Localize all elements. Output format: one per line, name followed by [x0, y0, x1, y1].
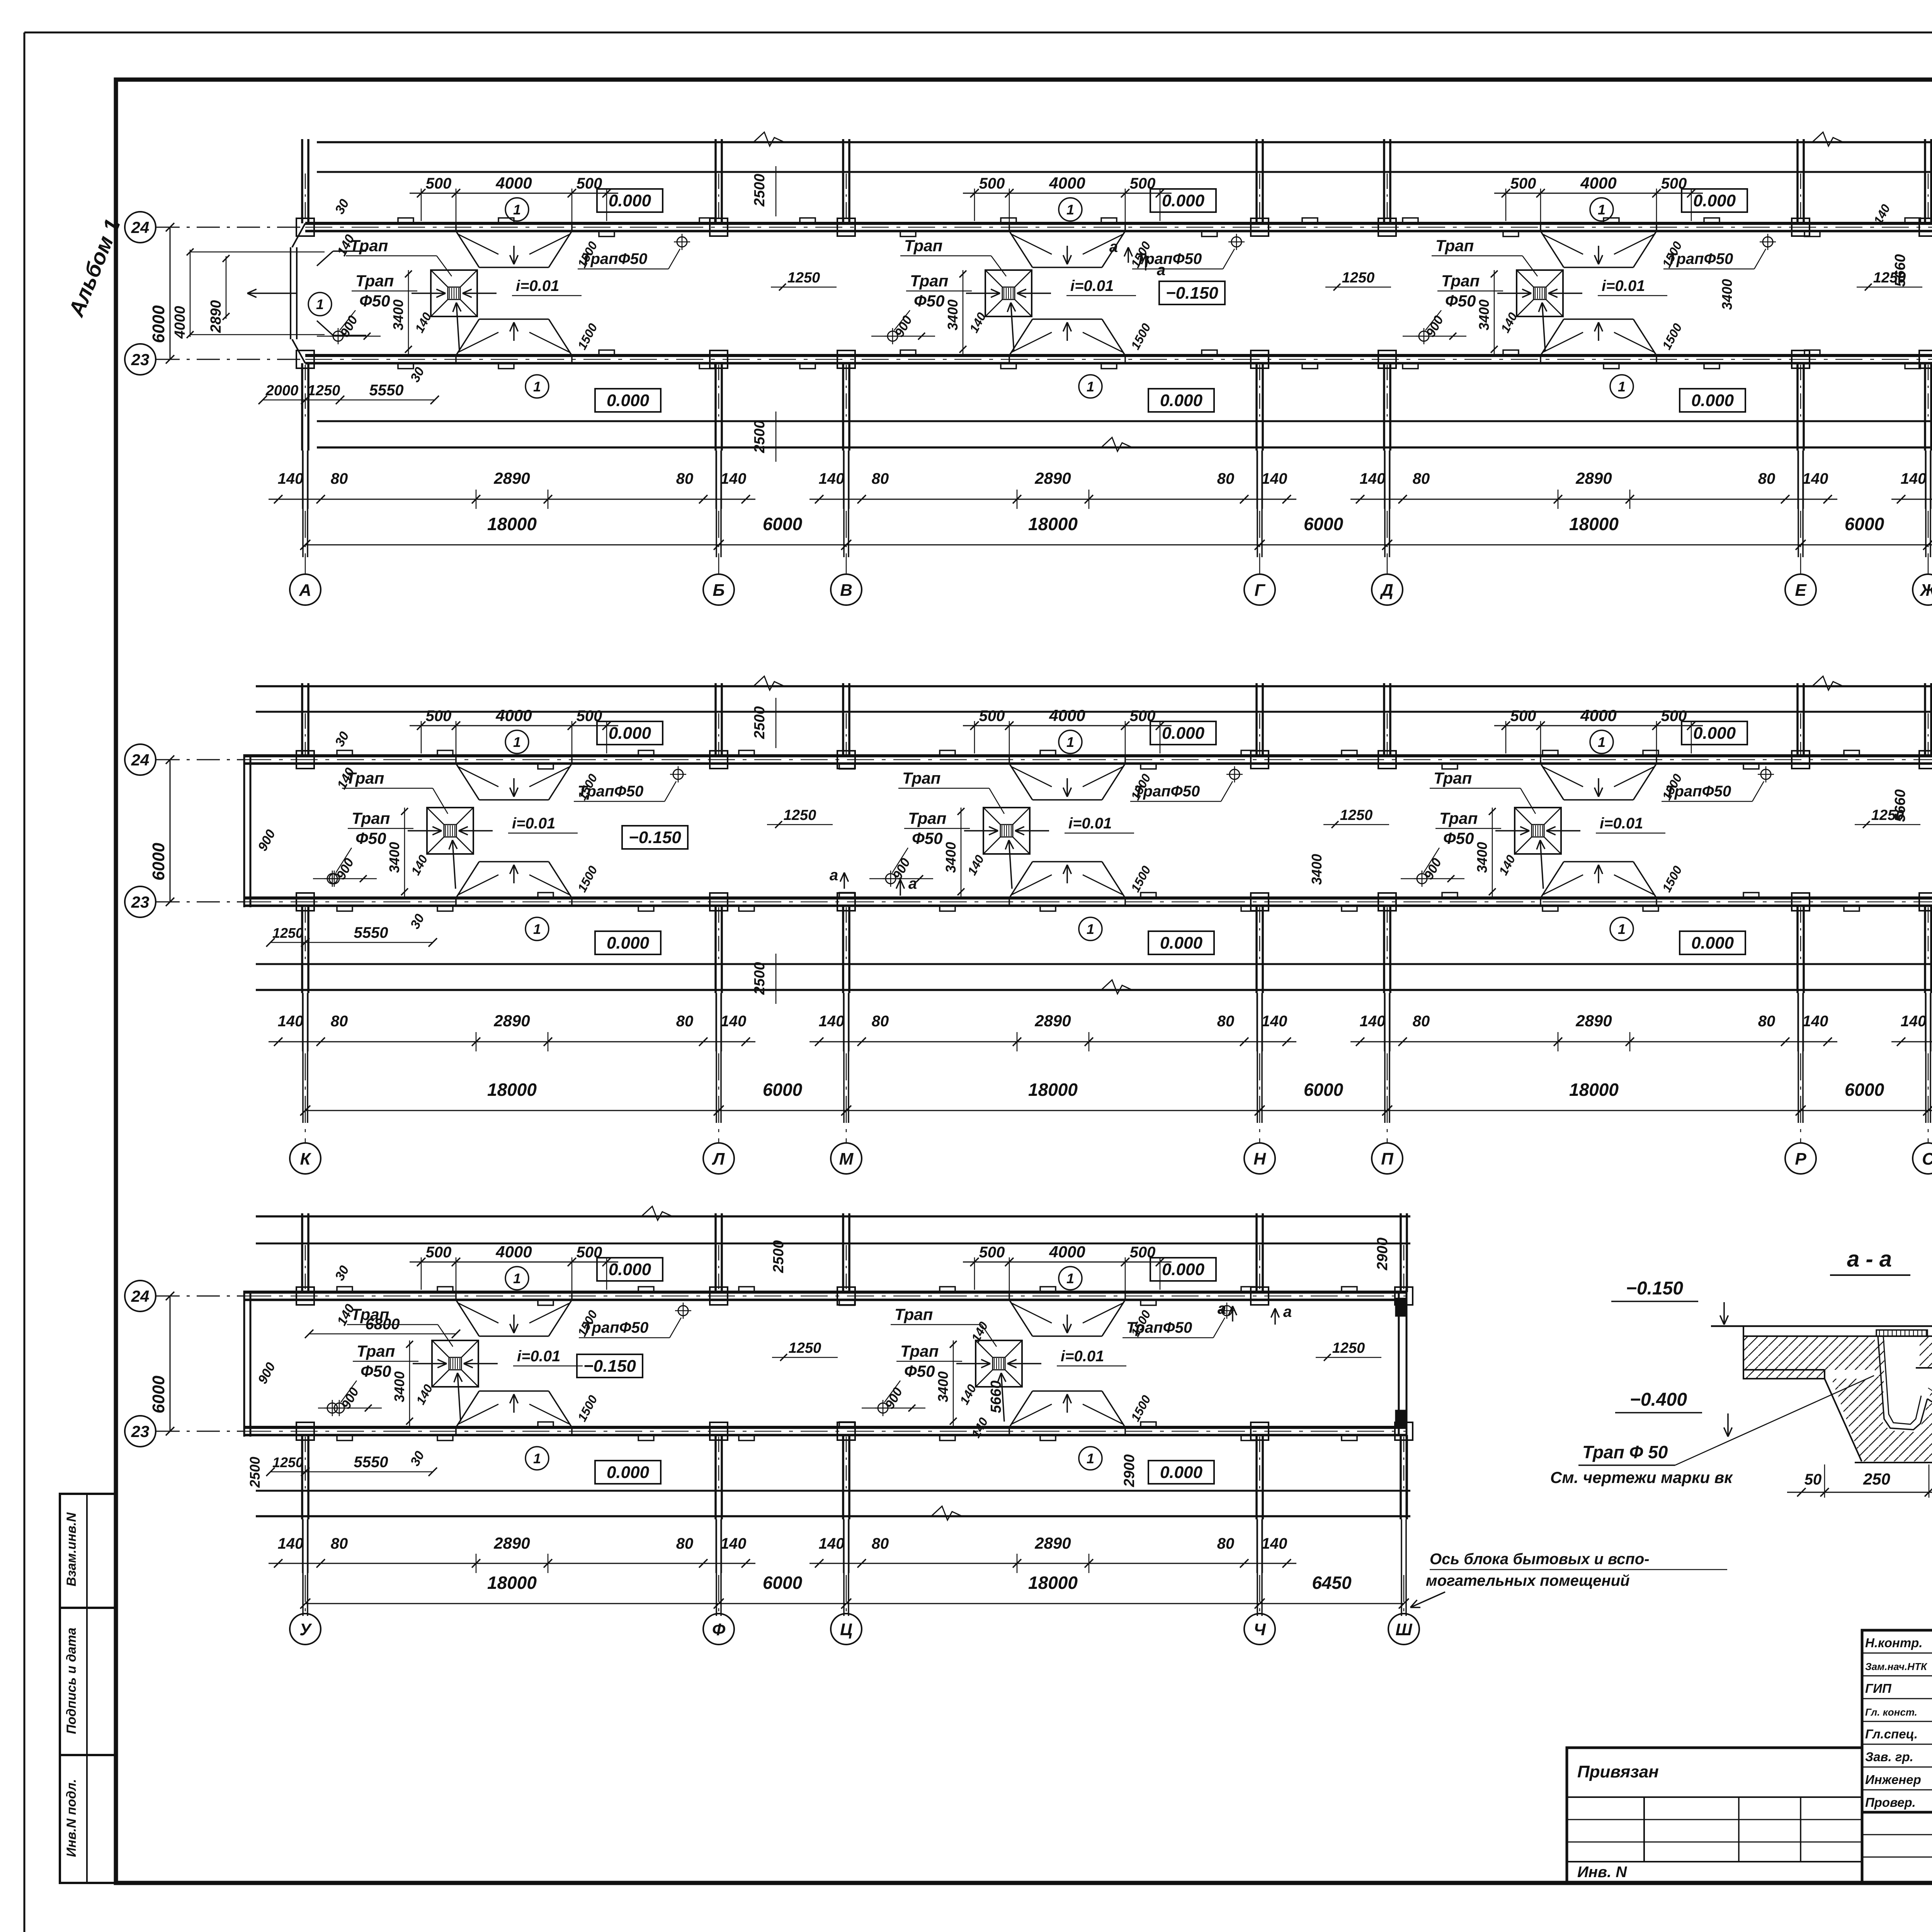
svg-text:ГИП: ГИП [1865, 1681, 1892, 1696]
svg-text:Инв.N подл.: Инв.N подл. [64, 1779, 79, 1857]
corridor 1 bottom door recess at x4137 [1541, 319, 1564, 355]
corridor 3 marker circle 1 upper [1059, 1267, 1082, 1290]
svg-text:140: 140 [965, 853, 987, 878]
svg-text:2500: 2500 [752, 962, 768, 995]
left margin stamp boxes [60, 1494, 116, 1608]
svg-text:Трап: Трап [900, 1342, 939, 1360]
svg-text:140: 140 [1262, 1535, 1287, 1552]
corridor 3 axis bubble 24 [125, 1281, 156, 1311]
corridor 1 marker circle 1 lower [1079, 375, 1102, 398]
svg-text:1: 1 [533, 1451, 541, 1466]
svg-text:80: 80 [872, 470, 889, 487]
svg-text:140: 140 [819, 1013, 845, 1030]
corridor 1 500-4000-500 dimension [410, 193, 618, 194]
svg-text:900: 900 [1423, 313, 1446, 340]
svg-text:6000: 6000 [1845, 514, 1884, 534]
svg-text:0.000: 0.000 [1160, 1463, 1203, 1482]
corridor 1 bottom dimension ticks row [269, 499, 755, 500]
svg-text:6000: 6000 [149, 843, 168, 881]
svg-text:5550: 5550 [354, 924, 388, 941]
svg-text:Трап: Трап [355, 272, 394, 290]
corridor 3 right Trap f50 label [678, 1306, 688, 1316]
svg-text:18000: 18000 [1028, 514, 1078, 534]
svg-text:Зам.нач.НТК: Зам.нач.НТК [1865, 1661, 1928, 1672]
axis Д column corridor 1 [1383, 139, 1385, 223]
svg-text:80: 80 [676, 1535, 694, 1552]
svg-text:а - а: а - а [1847, 1247, 1892, 1272]
svg-text:1500: 1500 [1660, 321, 1685, 352]
corridor 1 right Trap f50 label [1231, 237, 1242, 247]
corridor 1 axis bubble 24 [125, 212, 156, 243]
svg-text:80: 80 [872, 1013, 889, 1030]
corridor 1 west exit arrow [247, 293, 298, 294]
svg-text:900: 900 [1421, 856, 1444, 882]
axis Ц column corridor 3 [842, 1213, 844, 1292]
corridor 3 axis letter bubbles [290, 1614, 321, 1645]
svg-text:Трап: Трап [1435, 236, 1474, 255]
corridor 3 6800 dim [309, 1333, 456, 1335]
corridor 1 top door recess at x4137 [1541, 231, 1564, 267]
svg-text:1500: 1500 [575, 1393, 600, 1424]
svg-text:У: У [299, 1620, 312, 1639]
svg-text:80: 80 [1217, 470, 1235, 487]
greenhouse bay below corridor 1 [317, 420, 1932, 422]
corridor 1 marker circle 1 lower [526, 375, 549, 398]
svg-text:1: 1 [513, 734, 521, 750]
corridor 2 500-4000-500 dimension [963, 725, 1172, 726]
svg-text:0.000: 0.000 [609, 1260, 651, 1279]
axis Ш column corridor 3 [1400, 1213, 1402, 1292]
svg-text:Ф50: Ф50 [904, 1362, 935, 1380]
corridor 2 0.000 level box upper [1150, 721, 1216, 745]
svg-text:Трап: Трап [910, 272, 948, 290]
svg-text:Подпись и дата: Подпись и дата [64, 1628, 79, 1734]
svg-text:Ц: Ц [840, 1620, 852, 1639]
corridor 2 bottom door recess at x4137 [1541, 862, 1564, 898]
corridor 2 drain pan at x1165 [427, 808, 473, 854]
corridor 3 bottom wall [244, 1426, 1406, 1429]
corridor 3 marker circle 1 lower [526, 1447, 549, 1470]
svg-text:80: 80 [1758, 1013, 1776, 1030]
svg-text:18000: 18000 [1028, 1080, 1078, 1100]
svg-text:500: 500 [426, 1244, 452, 1261]
svg-text:Н.контр.: Н.контр. [1865, 1636, 1922, 1650]
corridor 2 marker circle 1 upper [1059, 730, 1082, 753]
axis Ж column corridor 1 [1924, 139, 1926, 223]
corridor 2 3400 vertical dim [961, 808, 962, 896]
svg-text:23: 23 [131, 1422, 150, 1440]
svg-text:4000: 4000 [495, 174, 532, 192]
svg-text:С: С [1922, 1150, 1932, 1168]
svg-text:1: 1 [1066, 202, 1074, 218]
svg-text:ТрапФ50: ТрапФ50 [1126, 1319, 1192, 1336]
corridor 2 500-4000-500 dimension [410, 725, 618, 726]
section a-a floor top lines [1711, 1325, 1932, 1327]
corridor 3 bottom door recess at x1330 [456, 1391, 479, 1427]
corridor 1 500-4000-500 dimension [1494, 193, 1703, 194]
corridor 1 axis 23 line [156, 359, 305, 360]
axis Б column corridor 1 [714, 139, 717, 223]
svg-text:1250: 1250 [308, 383, 340, 399]
svg-text:К: К [300, 1150, 311, 1168]
corridor 1 marker circle west [308, 293, 332, 316]
svg-text:4000: 4000 [172, 306, 188, 339]
svg-text:0.000: 0.000 [607, 391, 650, 410]
svg-text:4000: 4000 [1049, 174, 1085, 192]
corridor 2 left 6000 dim [170, 760, 171, 902]
section a-a trap channel [1878, 1336, 1927, 1430]
svg-text:М: М [839, 1150, 854, 1168]
corridor 1 drain pan at x3985 [1517, 270, 1563, 316]
svg-text:Ф50: Ф50 [912, 829, 943, 847]
svg-text:а: а [1218, 1300, 1226, 1317]
svg-text:Трап: Трап [895, 1305, 933, 1323]
svg-text:ТрапФ50: ТрапФ50 [1134, 783, 1200, 800]
svg-text:500: 500 [426, 175, 452, 192]
corridor 3 bottom door recess at x2762 [1009, 1391, 1032, 1427]
svg-text:Зав. гр.: Зав. гр. [1865, 1750, 1913, 1764]
svg-text:1: 1 [1066, 1270, 1074, 1286]
corridor 3 500-4000-500 dimension [963, 1262, 1172, 1263]
section a-a pit bottom [1855, 1462, 1932, 1463]
axis У column corridor 3 [301, 1213, 303, 1292]
corridor 1 axis bubble 23 [125, 344, 156, 375]
corridor 1 3400 vertical dim [1494, 270, 1495, 354]
svg-text:30: 30 [332, 1263, 352, 1283]
corridor 1 west chamfered end [292, 223, 305, 247]
svg-text:а: а [830, 867, 838, 884]
svg-text:Ф: Ф [712, 1620, 726, 1639]
svg-text:18000: 18000 [1028, 1573, 1078, 1593]
svg-text:1: 1 [1087, 921, 1094, 937]
corridor 1 marker circle 1 lower [1610, 375, 1633, 398]
svg-text:18000: 18000 [487, 514, 537, 534]
corridor 3 0.000 level box lower [1148, 1461, 1214, 1484]
svg-text:6800: 6800 [366, 1316, 400, 1333]
corridor 2 axis letter bubbles [290, 1143, 321, 1174]
svg-text:ТрапФ50: ТрапФ50 [1665, 783, 1731, 800]
svg-text:900: 900 [255, 827, 278, 854]
svg-text:140: 140 [1901, 1013, 1927, 1030]
svg-text:4000: 4000 [495, 1243, 532, 1261]
svg-text:Ф50: Ф50 [914, 292, 945, 310]
corridor 2 bottom door recess at x2762 [1009, 862, 1032, 898]
corridor 3 -0.150 box [577, 1354, 643, 1378]
corridor 2 main dimension line [305, 1110, 1932, 1111]
corridor 2 top wall [244, 754, 1932, 757]
svg-text:18000: 18000 [1569, 514, 1619, 534]
svg-text:i=0.01: i=0.01 [517, 1348, 560, 1365]
svg-text:18000: 18000 [487, 1573, 537, 1593]
section a-a left slab hatched [1743, 1336, 1875, 1379]
svg-text:1250: 1250 [1332, 1340, 1365, 1356]
corridor 2 top door recess at x1330 [456, 764, 479, 800]
svg-text:Ч: Ч [1253, 1620, 1266, 1639]
svg-text:140: 140 [1360, 470, 1386, 487]
svg-text:140: 140 [1803, 470, 1828, 487]
svg-text:900: 900 [892, 313, 915, 340]
svg-text:140: 140 [278, 1535, 304, 1552]
svg-text:1500: 1500 [1128, 864, 1153, 895]
corridor 3 right Trap f50 label [1222, 1306, 1232, 1316]
svg-text:Ф50: Ф50 [361, 1362, 391, 1380]
corridor 1 0.000 level box lower [595, 389, 661, 412]
corridor 1 right Trap f50 label [677, 237, 687, 247]
svg-text:ТрапФ50: ТрапФ50 [1667, 250, 1733, 267]
corridor 1 0.000 level box upper [1682, 189, 1747, 212]
svg-text:Трап: Трап [902, 769, 940, 787]
corridor 1 axis 24 line [156, 227, 305, 228]
svg-text:Ж: Ж [1920, 581, 1932, 600]
svg-text:0.000: 0.000 [609, 191, 651, 210]
svg-text:а: а [908, 875, 917, 892]
svg-text:140: 140 [1262, 1013, 1287, 1030]
svg-text:могательных помещений: могательных помещений [1426, 1572, 1630, 1589]
axis Л column corridor 2 [714, 683, 717, 756]
corridor 1 0.000 level box upper [1150, 189, 1216, 212]
axis П column corridor 2 [1383, 683, 1385, 756]
corridor 1 500-4000-500 dimension [963, 193, 1172, 194]
corridor 2 0.000 level box lower [1680, 931, 1745, 954]
svg-text:30: 30 [408, 365, 427, 384]
axis Е column corridor 1 [1796, 139, 1799, 223]
svg-text:2000: 2000 [265, 383, 299, 399]
axis М column corridor 2 [842, 683, 844, 756]
svg-text:Трап: Трап [1441, 272, 1480, 290]
svg-text:140: 140 [1496, 853, 1518, 878]
corridor 2 marker circle 1 lower [1079, 917, 1102, 940]
svg-text:2890: 2890 [1575, 469, 1612, 487]
svg-text:140: 140 [819, 1535, 845, 1552]
svg-text:900: 900 [338, 1385, 362, 1412]
svg-text:0.000: 0.000 [1693, 724, 1736, 743]
svg-text:6450: 6450 [1312, 1573, 1352, 1593]
svg-text:Л: Л [712, 1150, 725, 1168]
svg-text:5660: 5660 [988, 1381, 1004, 1413]
title block lower-left rows [1862, 1834, 1932, 1835]
title block signatures table [1862, 1630, 1932, 1812]
svg-text:0.000: 0.000 [1691, 934, 1734, 952]
svg-text:900: 900 [882, 1385, 905, 1412]
svg-text:18000: 18000 [1569, 1080, 1619, 1100]
svg-text:4000: 4000 [495, 706, 532, 724]
section a-a pipe axis dash-dot [1928, 1388, 1932, 1451]
svg-text:i=0.01: i=0.01 [1061, 1348, 1104, 1365]
svg-text:1500: 1500 [1660, 864, 1685, 895]
corridor 1 axis letter bubbles [290, 574, 321, 605]
corridor 3 3400 vertical dim [409, 1340, 410, 1426]
svg-text:1250: 1250 [272, 1454, 303, 1470]
corridor 2 marker circle 1 lower [526, 917, 549, 940]
corridor 2 marker circle 1 upper [1590, 730, 1613, 753]
svg-text:2500: 2500 [247, 1457, 263, 1488]
svg-text:3400: 3400 [945, 299, 961, 330]
corridor 1 marker circle 1 upper [505, 198, 529, 221]
corridor 2 0.000 level box upper [597, 721, 663, 745]
svg-text:i=0.01: i=0.01 [1070, 277, 1114, 294]
svg-text:Р: Р [1795, 1150, 1806, 1168]
svg-text:500: 500 [1510, 175, 1536, 192]
svg-text:В: В [840, 581, 852, 600]
svg-text:0.000: 0.000 [1162, 191, 1205, 210]
svg-text:Трап: Трап [908, 809, 946, 827]
svg-text:0.000: 0.000 [607, 1463, 650, 1482]
svg-text:Б: Б [713, 581, 724, 600]
corridor 2 axis bubble 23 [125, 886, 156, 917]
corridor 2 drain pan at x3980 [1515, 808, 1561, 854]
svg-text:500: 500 [979, 1244, 1005, 1261]
svg-text:1500: 1500 [575, 864, 600, 895]
corridor 3 west end wall [243, 1291, 245, 1437]
corridor 1 marker circle 1 upper [1590, 198, 1613, 221]
svg-text:3400: 3400 [391, 1371, 407, 1402]
svg-text:30: 30 [408, 912, 427, 931]
svg-text:2900: 2900 [1374, 1238, 1391, 1271]
corridor 1 left 6000 dim [170, 227, 171, 359]
svg-text:0.000: 0.000 [1693, 191, 1736, 210]
svg-text:Трап: Трап [357, 1342, 395, 1360]
svg-text:900: 900 [255, 1360, 278, 1386]
corridor 3 drain pan at x1178 [432, 1340, 478, 1387]
svg-text:30: 30 [408, 1449, 427, 1468]
svg-text:−0.150: −0.150 [1626, 1278, 1683, 1299]
svg-text:а: а [1157, 262, 1165, 279]
svg-text:0.000: 0.000 [1691, 391, 1734, 410]
svg-text:1: 1 [1618, 379, 1626, 395]
corridor 2 right Trap f50 label [1230, 769, 1240, 779]
svg-text:1: 1 [1087, 1451, 1094, 1466]
svg-text:2890: 2890 [208, 300, 224, 333]
svg-text:1250: 1250 [1340, 807, 1373, 823]
svg-text:2890: 2890 [1034, 469, 1071, 487]
svg-text:1250: 1250 [787, 270, 820, 286]
svg-text:140: 140 [721, 1535, 747, 1552]
svg-text:Гл. конст.: Гл. конст. [1865, 1706, 1917, 1718]
axis Г column corridor 1 [1255, 139, 1258, 223]
svg-text:2500: 2500 [752, 174, 768, 207]
corridor 1 0.000 level box lower [1680, 389, 1745, 412]
svg-text:80: 80 [872, 1535, 889, 1552]
svg-text:0.000: 0.000 [1160, 391, 1203, 410]
sheet outer edge lines [24, 32, 1932, 34]
corridor 2 bottom door recess at x1330 [456, 862, 479, 898]
svg-text:1500: 1500 [1128, 321, 1153, 352]
svg-text:См. чертежи марки вк: См. чертежи марки вк [1550, 1468, 1733, 1486]
svg-text:−0.150: −0.150 [1166, 284, 1218, 303]
svg-text:Трап: Трап [1439, 809, 1478, 827]
greenhouse bay above corridor 1 [317, 141, 1932, 143]
svg-text:80: 80 [1758, 470, 1776, 487]
svg-text:6000: 6000 [149, 305, 168, 343]
svg-text:2890: 2890 [493, 1534, 530, 1552]
svg-text:1: 1 [513, 202, 521, 218]
svg-text:80: 80 [676, 1013, 694, 1030]
corridor 2 0.000 level box lower [1148, 931, 1214, 954]
corridor 3 0.000 level box upper [597, 1258, 663, 1281]
corridor 2 right Trap f50 label [1761, 769, 1771, 779]
svg-text:500: 500 [979, 707, 1005, 724]
corridor 3 top door recess at x2762 [1009, 1300, 1032, 1336]
svg-text:80: 80 [1413, 1013, 1430, 1030]
svg-text:0.000: 0.000 [1160, 934, 1203, 952]
svg-text:Ф50: Ф50 [1445, 292, 1476, 310]
svg-text:2890: 2890 [1034, 1534, 1071, 1552]
svg-text:140: 140 [1803, 1013, 1828, 1030]
svg-text:1: 1 [533, 921, 541, 937]
svg-text:2500: 2500 [752, 706, 768, 740]
svg-text:4000: 4000 [1049, 1243, 1085, 1261]
svg-text:1: 1 [1618, 921, 1626, 937]
svg-text:1250: 1250 [1342, 270, 1375, 286]
section a-a pit left slope [1825, 1379, 1862, 1461]
axis Ф column corridor 3 [714, 1213, 717, 1292]
corridor 2 3400 vertical dim [404, 808, 405, 896]
svg-text:i=0.01: i=0.01 [1068, 815, 1112, 832]
svg-text:1: 1 [513, 1270, 521, 1286]
svg-text:1250: 1250 [784, 807, 816, 823]
corridor 1 west lower dims 2000 1250 5550 [263, 400, 435, 401]
corridor 1 drain pan at x2610 [985, 270, 1032, 316]
svg-text:1500: 1500 [1128, 1393, 1153, 1424]
corridor 2 3400 vertical dim [1492, 808, 1493, 896]
svg-text:Е: Е [1795, 581, 1807, 600]
svg-text:140: 140 [408, 853, 430, 878]
svg-text:Г: Г [1254, 581, 1265, 600]
svg-text:50: 50 [1804, 1471, 1822, 1488]
svg-text:i=0.01: i=0.01 [516, 277, 559, 294]
corridor 1 marker circle 1 upper [1059, 198, 1082, 221]
corridor 2 marker circle 1 upper [505, 730, 529, 753]
svg-text:30: 30 [332, 197, 352, 216]
corridor 3 drain pan at x2585 [976, 1340, 1022, 1387]
svg-text:2890: 2890 [1575, 1012, 1612, 1030]
corridor 3 0.000 level box lower [595, 1461, 661, 1484]
svg-text:80: 80 [1217, 1535, 1235, 1552]
svg-text:2890: 2890 [493, 1012, 530, 1030]
axis Ч column corridor 3 [1255, 1213, 1258, 1292]
svg-text:4000: 4000 [1580, 706, 1616, 724]
corridor 3 left 6000 dim [170, 1296, 171, 1431]
corridor 2 axis 24 line [156, 759, 244, 760]
corridor 3 500-4000-500 dimension [410, 1262, 618, 1263]
svg-text:18000: 18000 [487, 1080, 537, 1100]
svg-text:а: а [1283, 1303, 1292, 1320]
svg-text:3400: 3400 [935, 1371, 951, 1402]
corridor 1 3400 vertical dim [963, 270, 964, 354]
svg-text:140: 140 [1262, 470, 1287, 487]
svg-text:0.000: 0.000 [609, 724, 651, 743]
svg-text:3400: 3400 [1309, 854, 1325, 885]
corridor 1 bottom door recess at x1330 [456, 319, 479, 355]
corridor 3 0.000 level box upper [1150, 1258, 1216, 1281]
corridor 2 0.000 level box lower [595, 931, 661, 954]
section a-a drain grate [1876, 1330, 1927, 1336]
axis В column corridor 1 [842, 139, 844, 223]
svg-text:23: 23 [131, 893, 150, 911]
svg-text:Трап Ф 50: Трап Ф 50 [1582, 1442, 1668, 1462]
corridor 3 axis 23 line [156, 1431, 244, 1432]
svg-text:5550: 5550 [369, 382, 404, 399]
svg-text:а: а [1109, 238, 1118, 255]
corridor 1 right Trap f50 label [1763, 237, 1773, 247]
corridor 3 main dimension line [305, 1603, 1404, 1604]
corridor 3 top door recess at x1330 [456, 1300, 479, 1336]
svg-text:1250: 1250 [789, 1340, 821, 1356]
corridor 3 top wall [244, 1291, 1406, 1294]
svg-text:500: 500 [979, 175, 1005, 192]
corridor 2 bottom dimension ticks row [269, 1041, 755, 1043]
corridor 2 top door recess at x2762 [1009, 764, 1032, 800]
